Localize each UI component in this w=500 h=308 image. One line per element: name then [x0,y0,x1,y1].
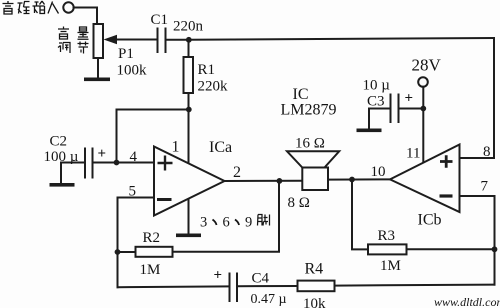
op-amp ICa plus sign [157,155,453,199]
ground (C3) [357,129,382,133]
svg-text:R3: R3 [378,228,396,244]
op-amp ICa [154,147,225,216]
node: pin7/R3 junction [492,246,498,252]
svg-text:3: 3 [200,215,207,231]
wire: C3 left plate to ground [369,109,391,130]
potentiometer P1 body [94,24,104,58]
node: C3 junction [420,106,426,112]
capacitor C1 220n [157,29,159,53]
svg-text:7: 7 [481,179,489,195]
svg-text:C4: C4 [252,271,270,287]
svg-text:220n: 220n [173,19,204,35]
svg-text:ICb: ICb [418,212,442,229]
svg-text:1M: 1M [380,258,401,274]
svg-text:100 µ: 100 µ [44,149,79,165]
svg-text:+: + [214,268,223,284]
wire: right edge vertical down to pin 8 [493,38,495,158]
wire: speaker right to ICb pin 10 and apex [328,178,390,180]
wire: pin-10 node down to R3 [352,180,368,250]
resistor R1 220k [188,40,190,57]
wire: bottom rail [118,285,230,288]
svg-text:10k: 10k [303,296,326,308]
wire: C4 to R4 [237,285,298,287]
svg-text:11: 11 [406,146,420,162]
wire: potentiometer bottom lead [97,58,99,78]
label: chinese 脚 (pin) [258,215,270,226]
svg-text:LM2879: LM2879 [281,102,337,119]
svg-text:+: + [405,91,414,107]
wire: C1 to node under it [166,39,190,41]
svg-text:10: 10 [371,164,386,180]
svg-text:www.dltdl.com: www.dltdl.com [434,295,500,308]
svg-text:P1: P1 [118,46,134,62]
wire: R1 junction left and down to pin4 node [117,110,189,163]
svg-text:R2: R2 [143,230,161,246]
svg-text:R4: R4 [305,261,324,278]
svg-text:1M: 1M [140,262,161,278]
svg-text:2: 2 [233,164,241,181]
svg-text:IC: IC [293,86,309,103]
wire: C3 right plate to 28V line [399,108,424,110]
wire: ICa output to speaker [225,180,303,182]
wire: R3 right to pin7 vertical [407,248,495,250]
resistor R3 1M [368,244,407,254]
wire: wiper to C1 [115,39,157,41]
node: ICa output junction [277,178,283,184]
wire: R2 right to ICa output node [173,181,280,252]
potentiometer wiper arrow [104,35,118,44]
svg-text:28V: 28V [412,56,442,75]
ground (below P1) [84,78,110,82]
capacitor C3 10u [398,95,400,123]
wire: top rail to right edge [189,38,494,40]
svg-text:8: 8 [483,144,491,160]
svg-text:C2: C2 [50,134,68,150]
wire: ICb pin 7 right and down [460,196,495,285]
svg-text:220k: 220k [198,79,229,95]
node: C1/R1/top-rail junction [186,37,192,43]
node: pin-10 junction [349,177,355,183]
label: chinese 音频输入 (audio input) [3,1,59,14]
svg-text:8 Ω: 8 Ω [288,195,310,211]
resistor R4 10k [298,281,335,292]
svg-text:5: 5 [129,183,137,199]
label: chinese 音量 (volume) [58,27,89,54]
svg-text:+: + [98,146,107,162]
wire: pin1 line down through ICa to ground [188,110,190,235]
op-amp ICb [390,145,460,213]
wire: input terminal to potentiometer top [74,8,98,25]
svg-text:4: 4 [130,149,138,165]
node: R1 bottom junction [186,107,192,113]
svg-text:C3: C3 [367,94,385,110]
svg-text:6: 6 [223,215,230,231]
svg-text:0.47 µ: 0.47 µ [251,292,287,307]
node: audio input terminal [63,2,73,12]
label: ideographic comma after 6 [235,220,239,226]
svg-text:10 µ: 10 µ [363,78,391,94]
wire: ICa pin 5 to left and down to bottom rail [118,198,155,288]
op-amp ICa minus sign [157,198,172,201]
capacitor C2 100u [84,149,86,178]
wire: R4 right to pin7 vertical corner [335,285,495,286]
svg-text:C1: C1 [151,12,169,28]
svg-text:ICa: ICa [209,139,232,156]
label: ideographic comma after 3 [213,220,217,226]
op-amp ICb minus sign [440,194,453,197]
label: chinese 调节 (adjust) [58,43,70,54]
ground (ICa pins 3,6,9) [176,234,201,238]
resistor R2 1M [118,251,136,253]
capacitor C4 0.47u [229,274,231,302]
svg-text:R1: R1 [198,62,216,78]
speaker cone [287,151,339,167]
node: pin-4 junction [114,160,120,166]
ground (C2 left) [50,183,75,187]
op-amp ICb plus sign [440,155,453,168]
svg-text:1: 1 [172,139,180,156]
svg-text:16 Ω: 16 Ω [295,136,325,152]
speaker box [302,168,328,191]
wire: 28V down to ICb pin 11 [422,87,424,162]
svg-text:9: 9 [245,215,252,231]
wire: ICb pin 8 to right edge [460,157,495,159]
wire: C2 ground lead [61,163,85,184]
wire: C2 to ICa pin 4 [93,162,155,164]
node: R2 left junction [115,249,121,255]
node: 28V supply terminal [418,77,428,87]
svg-text:100k: 100k [117,63,148,79]
